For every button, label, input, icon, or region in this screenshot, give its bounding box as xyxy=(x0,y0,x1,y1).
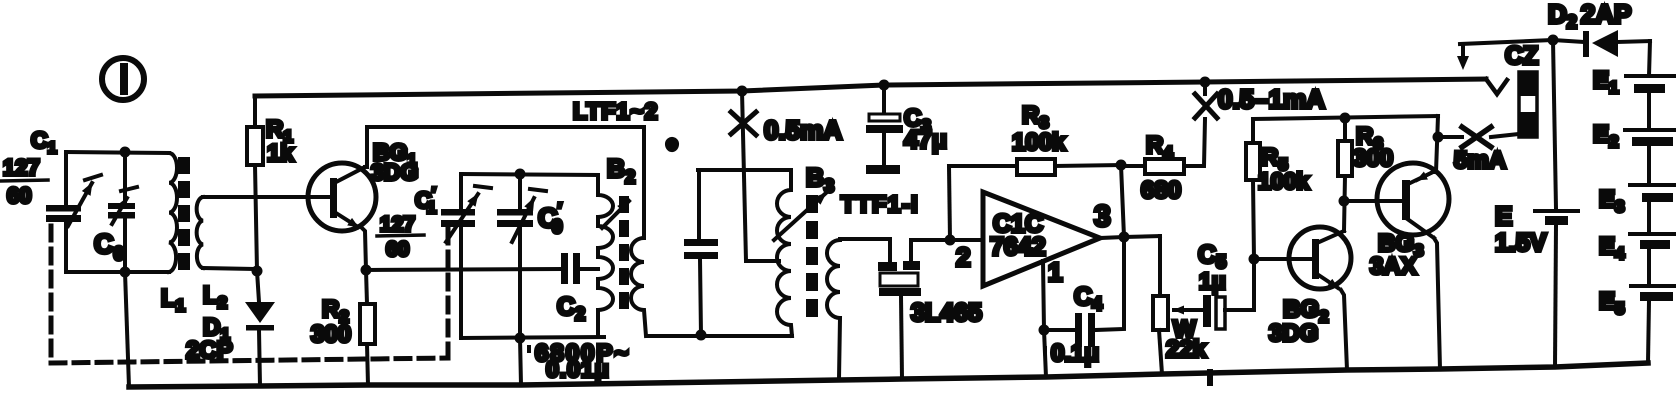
transistor BG2 xyxy=(1289,227,1351,289)
transformer B3 primary xyxy=(777,170,792,336)
current break X 0.5-1mA xyxy=(1195,94,1217,118)
node: BG2 base junction xyxy=(1249,254,1260,265)
wire: L2 bottom to bias node xyxy=(203,268,257,269)
rail stub artifact xyxy=(1207,369,1213,386)
wire: to X 5mA xyxy=(1438,135,1462,139)
wire: supply to B3 tap xyxy=(742,91,746,261)
label 127/60 fraction xyxy=(1,155,48,208)
wire: X to jack sleeve xyxy=(1491,134,1519,137)
wire: BG3 base xyxy=(1344,199,1400,203)
node: top rail C3 branch xyxy=(879,80,890,91)
wire: tank bottom edge xyxy=(461,337,604,338)
B3 tuning arrow xyxy=(774,193,826,240)
node: R3/R4 junction xyxy=(1116,160,1127,171)
wire: output node xyxy=(1100,236,1160,238)
svg-text:0.5–1mA: 0.5–1mA xyxy=(1218,84,1325,114)
wire: BG3 collector to rail xyxy=(1434,238,1440,369)
variable capacitor C1' xyxy=(441,186,491,242)
wire: tank top edge xyxy=(461,174,598,175)
capacitor C1 (tuning gang section) xyxy=(46,175,101,226)
svg-text:3L465: 3L465 xyxy=(911,299,982,327)
transformer B2 secondary (feedback winding) xyxy=(631,127,646,336)
node: 5mA branch junction xyxy=(1433,132,1444,143)
svg-text:127: 127 xyxy=(380,213,415,236)
wire: pin1 node to rail xyxy=(1044,330,1046,377)
svg-text:D22AP: D22AP xyxy=(1548,0,1631,32)
node: top rail R4 branch xyxy=(1200,77,1211,88)
svg-text:3: 3 xyxy=(1094,200,1111,233)
wire: emitter tap into oscillator xyxy=(366,269,561,270)
node: R1/L2/D1 junction xyxy=(252,266,263,277)
resistor R4 xyxy=(1121,119,1205,174)
capacitor C4 xyxy=(1044,237,1124,347)
trimmer capacitor C0 xyxy=(108,187,137,224)
wire: tuning box left edge xyxy=(64,152,68,205)
ferrite core of L1/L2 xyxy=(178,157,190,270)
capacitor across B3 primary xyxy=(684,170,718,335)
wire: B3 bottom node to B2 secondary xyxy=(647,334,792,338)
wire: output stage supply edge xyxy=(1253,116,1438,119)
ink speck xyxy=(665,137,679,152)
wire: pin 1 down xyxy=(1043,261,1044,330)
svg-text:2: 2 xyxy=(956,242,970,272)
wire: oscillator tank left edge xyxy=(459,174,463,209)
transistor BG1 xyxy=(308,163,376,231)
svg-text:60: 60 xyxy=(7,183,31,208)
transformer B2 primary (tank winding) xyxy=(598,175,613,337)
wire: base node to BG2 xyxy=(1254,257,1312,261)
wire: tank ground to bottom rail xyxy=(520,338,521,385)
wire: junction down to output xyxy=(1121,165,1124,237)
resistor R3 xyxy=(949,159,1121,175)
label 0.1u xyxy=(1043,340,1099,367)
svg-text:22k: 22k xyxy=(1166,336,1207,363)
jack CZ fixed contact xyxy=(1457,40,1553,70)
node: pin 3 output junction xyxy=(1119,232,1130,243)
resistor R1 xyxy=(247,96,263,271)
transformer B3 secondary xyxy=(827,239,840,379)
svg-text:LTF1~2: LTF1~2 xyxy=(573,98,658,124)
svg-text:1k: 1k xyxy=(267,140,294,167)
jack CZ plug body xyxy=(1519,72,1537,137)
bottom rail xyxy=(129,363,1648,387)
battery cell E1 xyxy=(1626,76,1674,130)
resistor R5 xyxy=(1246,119,1260,259)
diode D2 xyxy=(1553,30,1650,57)
node: top rail B3 branch xyxy=(737,86,748,97)
wire: BG1 collector up xyxy=(365,127,367,167)
diode D1 xyxy=(245,271,275,386)
battery stack wire top xyxy=(1649,41,1650,76)
dashed gang link of tuning capacitors xyxy=(51,226,448,363)
battery cell E5 xyxy=(1631,286,1676,363)
current break X 5mA xyxy=(1462,127,1491,147)
jack CZ spring contact xyxy=(1486,79,1507,94)
trimmer capacitor C0' xyxy=(497,189,546,242)
transistor BG3 xyxy=(1377,163,1449,238)
node: capacitor bottom junction xyxy=(696,330,707,341)
wire: BG3 emitter up to supply edge xyxy=(1433,116,1438,172)
svg-text:E: E xyxy=(1495,201,1512,231)
svg-text:3DG: 3DG xyxy=(1269,320,1318,347)
svg-text:300: 300 xyxy=(311,321,351,348)
svg-text:C′1: C′1 xyxy=(415,184,436,217)
svg-text:0.5mA: 0.5mA xyxy=(764,115,842,145)
battery cell E2 xyxy=(1625,130,1676,185)
node: pin 2 junction xyxy=(945,235,956,246)
node: C0 top junction xyxy=(120,147,131,158)
node: pin1/C4 junction xyxy=(1039,325,1050,336)
node: tank top junction xyxy=(515,169,526,180)
svg-text:3AX: 3AX xyxy=(1370,253,1417,280)
wire: L2 top to BG1 base xyxy=(203,195,331,199)
battery cell E4 xyxy=(1630,234,1676,286)
inductor L1 (antenna coil) xyxy=(169,153,177,272)
B3 core xyxy=(806,195,818,317)
svg-text:7642: 7642 xyxy=(990,233,1046,261)
node: tank bottom junction xyxy=(515,333,526,344)
svg-text:60: 60 xyxy=(386,238,409,261)
op-amp IC C1C 7642 xyxy=(983,192,1100,286)
capacitor C2 xyxy=(561,253,580,284)
svg-text:1μ: 1μ xyxy=(1199,268,1226,294)
svg-text:TTF1-I: TTF1-I xyxy=(841,191,919,217)
node: BG3 base tap xyxy=(1339,196,1350,207)
node: emitter junction xyxy=(361,265,372,276)
svg-text:1: 1 xyxy=(1048,257,1062,287)
wire: feedback branch up from pin2 xyxy=(949,166,950,240)
svg-text:3DG: 3DG xyxy=(371,159,418,185)
svg-text:5mA: 5mA xyxy=(1454,147,1506,174)
figure number badge (1) xyxy=(102,58,144,100)
wire: filter to IC pin 2 xyxy=(911,238,983,242)
svg-text:0.01μ: 0.01μ xyxy=(546,356,610,382)
node: jack/D2/battery junction xyxy=(1548,35,1559,46)
inductor L2 (coupling winding) xyxy=(197,197,203,268)
wire: B3 secondary to filter xyxy=(840,237,890,241)
battery E 1.5V xyxy=(1535,40,1578,367)
wire: C0 branch xyxy=(123,152,127,204)
potentiometer W xyxy=(1153,236,1203,374)
B2 core xyxy=(619,196,629,309)
capacitor C5 xyxy=(1203,259,1254,329)
svg-text:0.1μ: 0.1μ xyxy=(1051,340,1099,367)
svg-text:680: 680 xyxy=(1141,177,1181,204)
wire: tank to bottom rail xyxy=(125,272,129,387)
svg-text:300: 300 xyxy=(1353,145,1393,172)
wire: BG1 emitter down xyxy=(362,228,366,270)
B2 tuning arrow xyxy=(602,201,629,228)
svg-text:127: 127 xyxy=(3,155,40,180)
top supply rail xyxy=(255,79,1486,96)
wire: C2 to B2 winding xyxy=(580,267,598,271)
svg-text:1.5V: 1.5V xyxy=(1495,229,1547,257)
wire: B3 top node xyxy=(698,168,791,172)
svg-text:C′0: C′0 xyxy=(538,200,562,238)
capacitor C3 xyxy=(866,85,903,174)
svg-text:100k: 100k xyxy=(1012,129,1066,156)
svg-text:47μ: 47μ xyxy=(904,126,947,154)
wire: collector feedback to B2 secondary xyxy=(367,125,644,129)
svg-text:CZ: CZ xyxy=(1505,42,1538,70)
wire: tuning box top edge xyxy=(66,152,169,153)
label 6800P~ 0.01u xyxy=(527,340,630,382)
ceramic filter TTF1-1 symbol xyxy=(878,239,921,379)
wire: tuning box bottom edge xyxy=(66,270,169,274)
node: C0 bottom junction xyxy=(120,267,131,278)
battery cell E3 xyxy=(1630,185,1676,234)
wire: C0' branch xyxy=(518,174,522,209)
wire: BG2 emitter to rail xyxy=(1341,290,1347,370)
current break X 0.5mA xyxy=(731,112,756,135)
label 127/60 fraction (oscillator) xyxy=(377,213,424,261)
resistor R6 xyxy=(1338,113,1352,232)
svg-text:100k: 100k xyxy=(1258,168,1309,194)
resistor R2 xyxy=(360,270,375,385)
